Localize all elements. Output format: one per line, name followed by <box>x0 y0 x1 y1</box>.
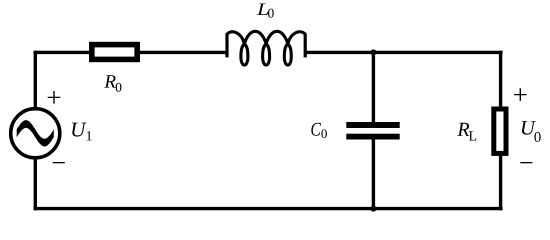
label plus output <box>514 88 527 101</box>
capacitor C0 bottom plate <box>346 134 399 140</box>
label U0 <box>522 121 536 135</box>
wire top right <box>305 51 502 54</box>
label R0 <box>104 75 115 87</box>
wire capacitor top <box>372 52 375 124</box>
inductor L0 left stub <box>225 33 228 57</box>
label C0 <box>311 123 321 136</box>
wire right <box>499 51 502 211</box>
source U1 sine wave <box>17 120 54 146</box>
label minus source <box>53 162 65 163</box>
wire bottom <box>34 207 503 210</box>
capacitor C0 top plate <box>346 122 399 128</box>
label RL <box>457 123 469 136</box>
inductor L0 right stub <box>304 33 307 57</box>
inductor L0 coil <box>227 31 305 65</box>
wire capacitor bottom <box>372 137 375 209</box>
label U1 <box>72 123 86 137</box>
node junction bottom <box>370 206 376 212</box>
label L0 <box>257 4 269 16</box>
wire left <box>34 51 37 211</box>
node junction top <box>370 49 376 55</box>
label minus output <box>520 162 532 163</box>
source U1 circle <box>11 109 60 158</box>
resistor R0 <box>92 45 137 60</box>
wire top left <box>34 51 227 54</box>
resistor RL <box>494 109 506 153</box>
label plus source <box>48 91 61 104</box>
